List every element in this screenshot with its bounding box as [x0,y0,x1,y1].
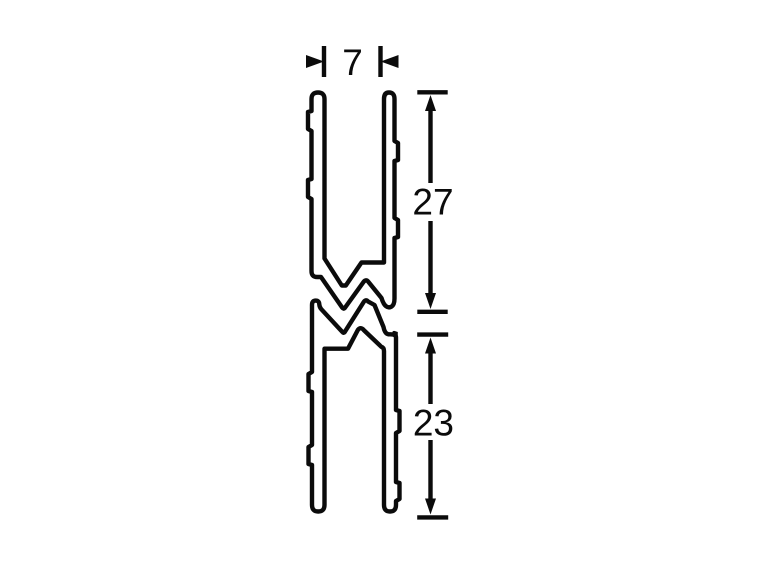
svg-text:23: 23 [413,403,454,444]
svg-text:27: 27 [412,182,453,223]
svg-text:7: 7 [342,42,363,83]
